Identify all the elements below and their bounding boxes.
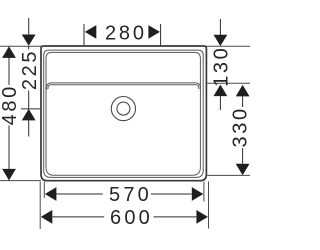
svg-text:600: 600 bbox=[110, 207, 153, 229]
svg-text:280: 280 bbox=[105, 23, 147, 45]
svg-text:225: 225 bbox=[19, 49, 41, 90]
svg-text:330: 330 bbox=[230, 106, 250, 147]
svg-text:570: 570 bbox=[109, 184, 152, 206]
svg-text:130: 130 bbox=[211, 46, 233, 87]
